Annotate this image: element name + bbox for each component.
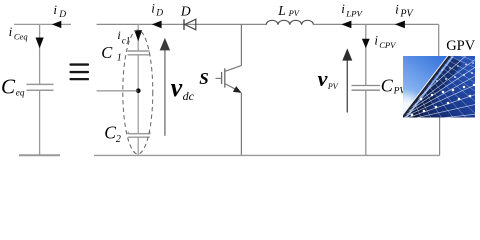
capacitor C2 bbox=[128, 132, 150, 138]
wire: midpoint stub bbox=[97, 90, 138, 92]
label v_dc bbox=[171, 73, 195, 103]
label i_LPV bbox=[341, 1, 363, 18]
svg-text:v: v bbox=[318, 66, 328, 91]
current arrow i_LPV bbox=[341, 21, 351, 29]
label i_Ceq bbox=[9, 24, 29, 42]
svg-text:PV: PV bbox=[327, 82, 339, 91]
wire: equivalent-circuit vertical lower bbox=[39, 90, 41, 155]
PV panel photo (GPV) bbox=[383, 26, 480, 128]
label v_PV bbox=[318, 66, 339, 91]
svg-text:Ceq: Ceq bbox=[14, 31, 28, 41]
wire: equivalent-circuit bottom rail bbox=[19, 154, 60, 156]
current arrow i_D (main) bbox=[152, 21, 162, 29]
capacitor C_PV bbox=[352, 86, 381, 91]
current arrow i_CPV bbox=[362, 39, 370, 49]
svg-text:D: D bbox=[180, 3, 191, 18]
svg-text:i: i bbox=[395, 1, 399, 16]
svg-text:i: i bbox=[117, 28, 120, 42]
frame rod bbox=[402, 55, 451, 119]
svg-text:i: i bbox=[341, 1, 345, 16]
wire: C branch middle bbox=[137, 55, 139, 134]
wire: main top rail right segment bbox=[313, 23, 438, 25]
svg-text:PV: PV bbox=[399, 9, 414, 20]
svg-text:C: C bbox=[101, 43, 113, 62]
wire: below PV panel bbox=[439, 118, 441, 156]
label L_PV bbox=[277, 3, 300, 18]
current arrow i_Ceq bbox=[36, 38, 44, 49]
transistor S (IGBT) collector wire bbox=[240, 24, 242, 65]
node dot (DC-link midpoint) bbox=[136, 88, 141, 93]
label i_PV bbox=[395, 1, 414, 19]
wire: main bottom rail bbox=[94, 154, 440, 156]
label i_c1 bbox=[117, 28, 130, 46]
transistor S (IGBT) body bbox=[216, 66, 242, 93]
current arrow i_PV bbox=[395, 21, 405, 29]
voltage arrow v_PV bbox=[342, 48, 352, 112]
wire: C1 branch top bbox=[137, 24, 139, 51]
dashed ellipse around C1-C2 bbox=[123, 30, 153, 154]
label i_CPV bbox=[374, 33, 397, 50]
current arrow i_c1 bbox=[134, 30, 142, 41]
wire: main top rail left segment bbox=[97, 23, 267, 25]
label i_D (left circuit) bbox=[53, 2, 66, 20]
label C_1 bbox=[101, 43, 122, 64]
svg-text:i: i bbox=[374, 33, 378, 48]
svg-text:C: C bbox=[104, 122, 116, 142]
svg-text:LPV: LPV bbox=[345, 8, 363, 18]
capacitor C_eq bbox=[27, 84, 54, 90]
wire: equivalent-circuit vertical bbox=[39, 24, 41, 84]
svg-text:PV: PV bbox=[288, 9, 300, 18]
svg-text:S: S bbox=[199, 69, 208, 88]
svg-text:c1: c1 bbox=[122, 35, 131, 45]
svg-text:1: 1 bbox=[117, 52, 122, 63]
current arrow i_D (left circuit) bbox=[52, 21, 62, 28]
label C_2 bbox=[104, 122, 121, 145]
wire: C2 branch bottom bbox=[137, 137, 139, 155]
panel sheen band below frame bbox=[404, 56, 453, 120]
svg-text:D: D bbox=[58, 10, 66, 20]
svg-text:i: i bbox=[151, 0, 155, 15]
svg-text:i: i bbox=[53, 2, 57, 17]
svg-text:GPV: GPV bbox=[446, 38, 476, 54]
inductor L_PV bbox=[266, 20, 313, 24]
svg-text:CPV: CPV bbox=[379, 40, 397, 50]
svg-text:2: 2 bbox=[116, 134, 121, 145]
svg-text:v: v bbox=[171, 73, 183, 102]
svg-text:dc: dc bbox=[183, 89, 195, 103]
wire: equivalent-circuit top rail bbox=[14, 23, 71, 25]
transistor S emitter wire bbox=[240, 93, 242, 156]
label C_eq bbox=[1, 74, 25, 98]
wire: C_PV branch bottom bbox=[365, 90, 367, 155]
wire: right vertical to PV panel bbox=[438, 24, 440, 56]
wire: C_PV branch top bbox=[365, 24, 367, 85]
diode D bbox=[184, 19, 196, 30]
svg-text:C: C bbox=[381, 76, 394, 96]
label C_PV bbox=[381, 76, 407, 97]
svg-text:i: i bbox=[9, 24, 13, 39]
capacitor C1 bbox=[128, 51, 150, 55]
svg-text:D: D bbox=[155, 9, 163, 19]
label i_D (main) bbox=[151, 0, 163, 18]
svg-text:C: C bbox=[1, 74, 16, 98]
equivalence symbol bbox=[70, 63, 90, 80]
svg-text:L: L bbox=[277, 3, 286, 18]
svg-text:eq: eq bbox=[16, 87, 25, 97]
voltage arrow v_dc bbox=[160, 38, 170, 136]
